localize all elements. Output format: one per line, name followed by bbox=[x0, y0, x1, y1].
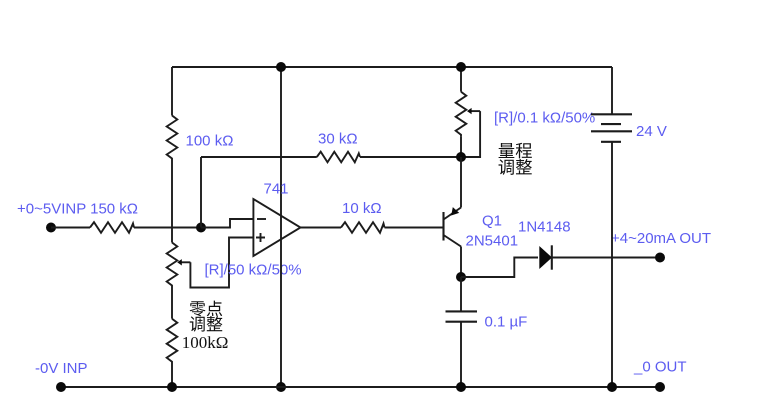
wire left column lower bbox=[171, 288, 173, 319]
wire battery bottom bbox=[611, 142, 613, 387]
junction dot right top bbox=[456, 62, 466, 72]
input terminal -0V bbox=[56, 382, 66, 392]
wire to node A bbox=[134, 227, 201, 229]
wire left column to ground rail bbox=[171, 363, 173, 387]
svg-text:Q1: Q1 bbox=[482, 213, 502, 230]
wire mid column bbox=[280, 67, 282, 387]
wire RP2 wiper down bbox=[461, 111, 480, 157]
wire bottom rail bbox=[61, 386, 660, 388]
op-amp U1 741 bbox=[253, 199, 300, 256]
junction dot mid top bbox=[276, 62, 286, 72]
svg-text:0.1 µF: 0.1 µF bbox=[485, 314, 528, 331]
wire diode to output terminal bbox=[552, 257, 660, 259]
wire node A to op-amp minus bbox=[201, 219, 253, 228]
output terminal _0 OUT bbox=[655, 382, 665, 392]
svg-text:24 V: 24 V bbox=[636, 123, 667, 140]
wire node C to diode bbox=[461, 258, 538, 278]
svg-text:-0V INP: -0V INP bbox=[35, 360, 88, 377]
potentiometer RP1 zero-adjust zigzag bbox=[167, 243, 178, 288]
svg-text:+4~20mA OUT: +4~20mA OUT bbox=[611, 230, 711, 247]
battery BT1 plates bbox=[591, 114, 632, 142]
junction dot left bottom bbox=[167, 382, 177, 392]
op-amp plus sign bbox=[256, 233, 265, 242]
svg-text:100kΩ: 100kΩ bbox=[182, 333, 229, 352]
svg-text:+0~5VINP 150 kΩ: +0~5VINP 150 kΩ bbox=[17, 201, 138, 218]
wire input bbox=[51, 227, 90, 229]
wire RP2 bottom to node B bbox=[460, 137, 462, 157]
transistor Q1 emitter arrow bbox=[451, 207, 459, 215]
resistor R3 100k lower bbox=[167, 319, 178, 363]
transistor Q1 base bar bbox=[442, 212, 444, 241]
wire node A up to feedback row bbox=[200, 157, 202, 228]
annotation zero adjust line2 bbox=[190, 316, 223, 332]
node B dot bbox=[456, 152, 466, 162]
diode D1 1N4148 triangle bbox=[539, 246, 552, 269]
diode D1 cathode bar bbox=[551, 245, 553, 269]
wire top rail bbox=[172, 66, 612, 68]
resistor R5 30 kOhm bbox=[317, 152, 360, 163]
svg-text:_0 OUT: _0 OUT bbox=[633, 359, 687, 376]
junction dot mid bottom bbox=[276, 382, 286, 392]
input terminal +0~5V bbox=[46, 223, 56, 233]
junction dot battery bottom bbox=[607, 382, 617, 392]
node A dot bbox=[196, 223, 206, 233]
transistor Q1 collector bbox=[444, 235, 462, 247]
potentiometer RP2 wiper arrow bbox=[471, 110, 481, 112]
svg-text:30 kΩ: 30 kΩ bbox=[318, 131, 358, 148]
wire Q1 collector down bbox=[460, 247, 462, 278]
annotation zero adjust line1 bbox=[190, 301, 223, 317]
svg-text:100 kΩ: 100 kΩ bbox=[186, 133, 234, 150]
svg-text:1N4148: 1N4148 bbox=[518, 219, 571, 236]
output terminal +4~20mA bbox=[655, 253, 665, 263]
wire capacitor to ground rail bbox=[460, 322, 462, 387]
wire wiper to op-amp plus input bbox=[190, 238, 253, 288]
wire node B down to Q1 emitter bbox=[460, 157, 462, 208]
potentiometer RP2 span-adjust zigzag bbox=[456, 92, 467, 137]
resistor R6 10 kOhm bbox=[341, 222, 385, 233]
junction dot Q column bottom bbox=[456, 382, 466, 392]
wire feedback row left bbox=[201, 156, 317, 158]
svg-text:2N5401: 2N5401 bbox=[466, 233, 519, 250]
node C dot bbox=[456, 272, 466, 282]
wire to Q1 base bbox=[385, 227, 444, 229]
wire left column upper bbox=[171, 67, 173, 116]
resistor R4 150 kOhm bbox=[90, 222, 134, 233]
potentiometer RP1 wiper arrow bbox=[181, 261, 191, 263]
wire right column top bbox=[460, 67, 462, 92]
wire feedback row right bbox=[360, 156, 461, 158]
annotation span adjust line2 bbox=[499, 159, 532, 175]
wire battery top bbox=[611, 67, 613, 114]
capacitor C1 plates bbox=[446, 311, 478, 321]
op-amp minus sign bbox=[257, 218, 266, 220]
wire left column mid bbox=[171, 161, 173, 243]
resistor R1 100 kOhm (left branch) bbox=[167, 116, 178, 161]
annotation span adjust line1 bbox=[499, 143, 532, 159]
transistor Q1 emitter bbox=[444, 208, 462, 220]
svg-text:10 kΩ: 10 kΩ bbox=[342, 200, 382, 217]
wire node C down to capacitor bbox=[460, 277, 462, 311]
svg-text:[R]/50 kΩ/50%: [R]/50 kΩ/50% bbox=[205, 262, 302, 279]
svg-text:741: 741 bbox=[264, 181, 289, 198]
wire op-amp output bbox=[301, 227, 342, 229]
svg-text:[R]/0.1 kΩ/50%: [R]/0.1 kΩ/50% bbox=[494, 110, 595, 127]
